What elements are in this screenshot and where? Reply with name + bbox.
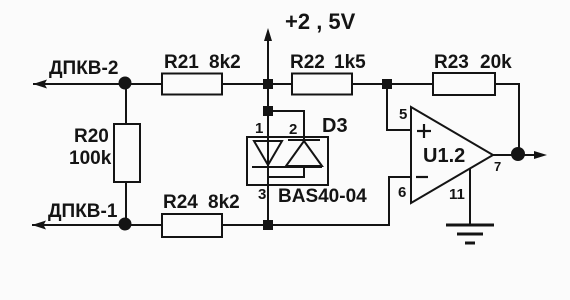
svg-text:1k5: 1k5 (334, 52, 366, 73)
svg-text:+2 , 5V: +2 , 5V (285, 9, 356, 34)
svg-text:5: 5 (399, 106, 407, 123)
svg-text:ДПКВ-2: ДПКВ-2 (49, 58, 118, 79)
svg-text:D3: D3 (322, 115, 348, 137)
svg-text:ДПКВ-1: ДПКВ-1 (48, 201, 118, 222)
svg-text:7: 7 (494, 159, 501, 174)
svg-text:R24: R24 (163, 192, 198, 213)
svg-text:R21: R21 (164, 52, 199, 73)
svg-text:R23: R23 (434, 52, 469, 73)
svg-text:R22: R22 (290, 52, 325, 73)
svg-text:100k: 100k (69, 148, 112, 169)
svg-text:2: 2 (289, 121, 297, 138)
svg-text:R20: R20 (74, 126, 109, 147)
svg-text:3: 3 (258, 186, 266, 203)
svg-text:U1.2: U1.2 (423, 145, 465, 167)
svg-text:8k2: 8k2 (209, 52, 241, 73)
svg-text:1: 1 (255, 120, 263, 137)
svg-text:6: 6 (398, 184, 406, 201)
svg-text:BAS40-04: BAS40-04 (278, 186, 367, 207)
svg-text:8k2: 8k2 (208, 192, 240, 213)
svg-text:11: 11 (449, 186, 465, 203)
svg-text:20k: 20k (480, 52, 512, 73)
